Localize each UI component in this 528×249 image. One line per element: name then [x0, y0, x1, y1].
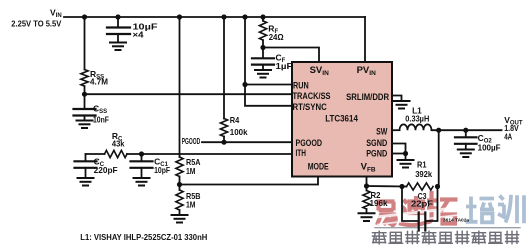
wire RUN [245, 84, 292, 86]
node VIN rail junction at input cap [115, 14, 120, 19]
node C02 junction [463, 128, 468, 133]
svg-text:24Ω: 24Ω [269, 32, 284, 42]
capacitor CIN 10uF x4 [107, 17, 130, 42]
svg-text:1M: 1M [186, 166, 196, 176]
watermark char tuo [427, 191, 458, 224]
node RUN junction [242, 82, 247, 87]
svg-text:43k: 43k [112, 138, 125, 148]
ground for CIN [110, 43, 126, 51]
resistor RSS 4.7M [81, 17, 88, 94]
wire VFB drop [366, 177, 368, 187]
wire ITH left [86, 153, 105, 155]
capacitor CC 220pF [75, 154, 97, 177]
node R5A/R5B midpoint [177, 182, 182, 187]
node VIN rail junction at R5A branch [177, 14, 182, 19]
resistor R5B 1M [176, 185, 183, 215]
capacitor C3 22pF [419, 213, 426, 231]
capacitor CSS 10nF [74, 94, 96, 120]
ground for CC [78, 178, 94, 186]
node RSS/CSS junction [82, 92, 87, 97]
ground for C02 [458, 150, 474, 158]
svg-text:R1: R1 [417, 160, 427, 170]
watermark char di [399, 196, 429, 225]
watermark slogan (stylized) [373, 231, 519, 244]
wire SW down to feedback [438, 130, 440, 186]
wire RUN branch vertical [244, 17, 246, 85]
wire PVIN drop [364, 17, 366, 62]
wire R5A branch vertical [179, 17, 181, 157]
svg-text:SRLIM/DDR: SRLIM/DDR [346, 92, 389, 103]
svg-text:10nF: 10nF [93, 115, 109, 125]
svg-text:CSS: CSS [93, 104, 107, 116]
capacitor CF 1uF [252, 48, 274, 70]
op-amp U1 LTC3614 body [292, 62, 392, 177]
capacitor CC1 10pF [131, 154, 153, 177]
wire R4 branch vertical [223, 17, 225, 119]
resistor R5A 1M [176, 157, 183, 177]
node R1 left junction [399, 184, 404, 189]
svg-text:MODE: MODE [308, 162, 329, 173]
svg-text:R4: R4 [230, 115, 240, 125]
svg-text:10pF: 10pF [154, 165, 170, 175]
resistor RF 24ohm [259, 17, 266, 48]
node PGOOD junction [221, 140, 226, 145]
wire SW [392, 129, 400, 131]
svg-text:LTC3614: LTC3614 [325, 113, 358, 124]
wire R4 bottom [223, 137, 225, 143]
wire C3 branch left [402, 187, 418, 222]
wire PGND [392, 153, 406, 155]
svg-text:PGND: PGND [366, 148, 387, 159]
wire RT/SYNC [245, 85, 292, 106]
svg-text:4.7M: 4.7M [90, 76, 108, 86]
wire C3 branch right [426, 187, 438, 222]
ground for R2 [359, 213, 375, 221]
node VFB junction [364, 183, 369, 188]
node VIN rail junction at RUN branch [242, 14, 247, 19]
ground for R5B [172, 215, 188, 223]
wire ITH right [127, 153, 292, 155]
svg-text:RT/SYNC: RT/SYNC [293, 102, 327, 113]
ground for CSS [77, 121, 93, 129]
wire VIN top rail [64, 16, 365, 18]
svg-text:22pF: 22pF [411, 199, 433, 209]
wire MODE [180, 177, 319, 185]
node R1 right junction [435, 184, 440, 189]
svg-text:196k: 196k [370, 198, 388, 208]
node RF/CF junction [260, 45, 265, 50]
wire VFB to R1 [367, 185, 407, 188]
wire SVIN [263, 48, 319, 63]
wire TRACK/SS [85, 93, 293, 95]
svg-text:4A: 4A [504, 131, 512, 141]
resistor R1 392k [407, 183, 434, 190]
watermark char pei [466, 197, 495, 223]
svg-text:VIN: VIN [50, 8, 62, 20]
svg-text:392k: 392k [415, 169, 432, 179]
svg-text:TRACK/SS: TRACK/SS [293, 91, 331, 102]
svg-text:2.25V TO 5.5V: 2.25V TO 5.5V [11, 18, 61, 28]
node VIN rail junction at R4 branch [221, 14, 226, 19]
svg-text:100µF: 100µF [478, 142, 501, 152]
node VIN rail junction at RSS branch [82, 14, 87, 19]
wire SW node to VOUT [432, 129, 502, 131]
node SGND/PGND junction [403, 151, 408, 156]
WATERMARK-LAYER [372, 191, 524, 244]
ground for CC1 [134, 178, 150, 186]
wire SGND [392, 144, 406, 154]
ground for PGND [398, 154, 414, 168]
svg-text:1M: 1M [186, 199, 196, 209]
watermark char xun [498, 195, 524, 223]
resistor R4 100k [220, 119, 227, 137]
ground for CF [255, 70, 271, 78]
watermark white streaks [372, 207, 463, 225]
wire PGOOD [202, 141, 292, 143]
capacitor C02 100uF [455, 130, 477, 148]
node CC1 junction [139, 151, 144, 156]
node VIN rail junction at RF branch [260, 14, 265, 19]
watermark rule line [375, 227, 520, 229]
svg-text:PGOOD: PGOOD [182, 136, 201, 146]
wire R5A to node [179, 177, 181, 185]
resistor RC 43k [105, 150, 128, 157]
wire SRLIM/DDR [392, 96, 402, 101]
node SW/R1 junction [436, 128, 441, 133]
svg-text:×4: ×4 [133, 30, 144, 40]
svg-text:220pF: 220pF [94, 165, 118, 175]
watermark char yi [377, 202, 396, 227]
svg-text:ITH: ITH [296, 148, 307, 159]
svg-text:100k: 100k [230, 127, 248, 137]
svg-text:SW: SW [376, 126, 387, 137]
svg-text:L1: VISHAY IHLP-2525CZ-01 330n: L1: VISHAY IHLP-2525CZ-01 330nH [80, 233, 207, 242]
svg-text:1µF: 1µF [276, 61, 293, 71]
resistor R2 196k [363, 186, 370, 213]
svg-text:3614 TA02a: 3614 TA02a [443, 217, 469, 223]
svg-text:RUN: RUN [293, 81, 309, 92]
ground for SRLIM/DDR [394, 101, 410, 109]
inductor L1 0.33uH [400, 124, 432, 130]
svg-text:0.33µH: 0.33µH [405, 113, 429, 123]
